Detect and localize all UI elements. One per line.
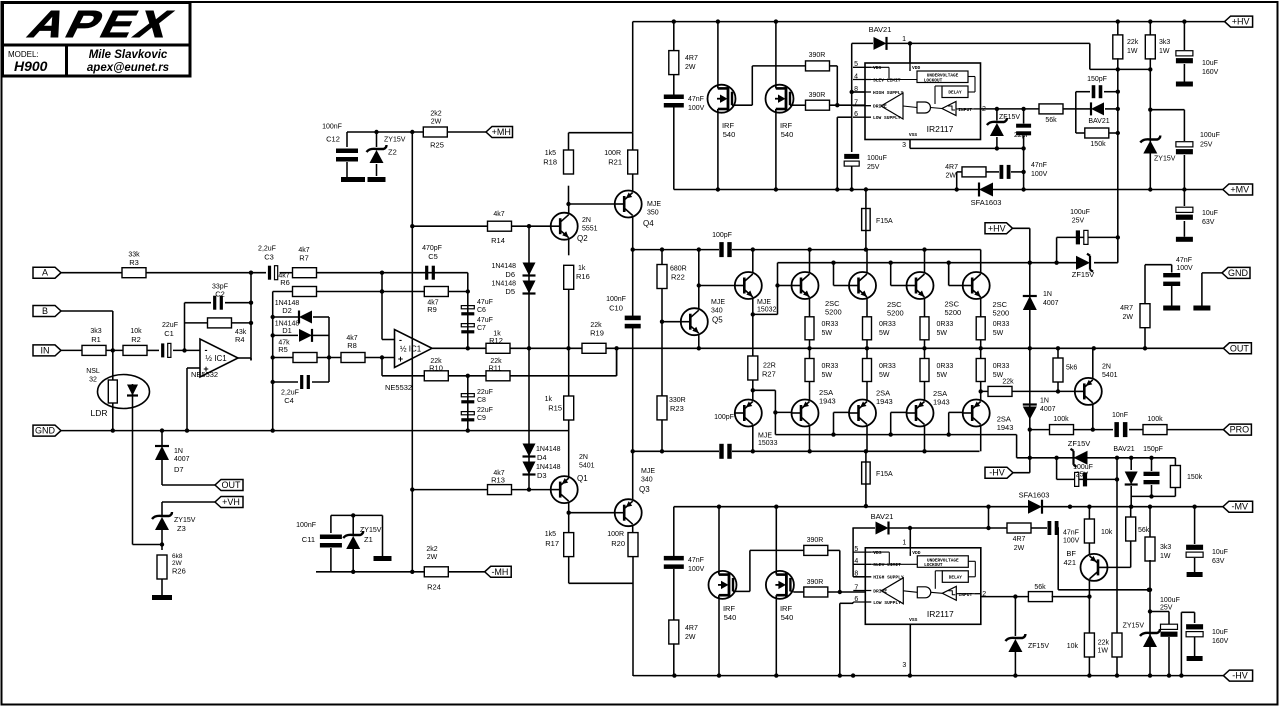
capacitor C8 — [461, 394, 474, 397]
wire 1117 vertical lower — [1116, 458, 1118, 634]
svg-text:C9: C9 — [477, 415, 486, 422]
pin 4 SLEV LIMIT — [853, 563, 871, 565]
svg-text:1k: 1k — [578, 265, 586, 272]
wire C1 to opamp minus — [173, 349, 200, 351]
svg-text:½ IC1: ½ IC1 — [400, 345, 422, 354]
wire R17 R20 bottom line — [569, 582, 633, 584]
zener Z3 — [155, 517, 169, 530]
svg-text:IRF: IRF — [780, 604, 793, 613]
svg-text:15032: 15032 — [757, 307, 777, 314]
svg-text:INPUT: INPUT — [958, 107, 972, 113]
svg-text:47uF: 47uF — [477, 317, 493, 324]
wire 100uF corner down — [1056, 237, 1058, 262]
op-amp IC1a — [200, 339, 238, 377]
svg-text:10uF: 10uF — [1212, 549, 1228, 556]
svg-text:1W: 1W — [1098, 648, 1109, 655]
resistor R7 — [293, 268, 317, 278]
resistor 390R upper2 — [806, 100, 830, 110]
wire Q2 emitter to R16 — [568, 238, 570, 256]
svg-text:22uF: 22uF — [162, 322, 178, 329]
svg-text:+HV: +HV — [1232, 17, 1250, 27]
wire R19 right — [606, 347, 701, 349]
svg-text:5551: 5551 — [582, 226, 598, 233]
svg-text:BAV21: BAV21 — [1113, 446, 1134, 453]
ground of C11 Z1 — [382, 515, 384, 556]
wire Q2 collector up — [568, 204, 570, 215]
resistor 56k lower right — [1126, 517, 1136, 541]
node minus column top — [380, 271, 384, 275]
svg-text:ZY15V: ZY15V — [1154, 156, 1176, 163]
svg-text:150k: 150k — [1090, 141, 1106, 148]
zener ZF15V lower rail — [1074, 451, 1088, 465]
wire opamp2 out — [432, 347, 486, 349]
wire 10uF 63V lower right — [1194, 507, 1196, 544]
svg-text:BAV21: BAV21 — [871, 512, 894, 521]
MOSFET IRF540 #3 — [709, 571, 737, 599]
capacitor 100uF upper IC — [844, 154, 859, 159]
wire -MH rail — [316, 571, 425, 573]
transistor Q5 MJE340 — [681, 308, 708, 335]
svg-text:C8: C8 — [477, 397, 486, 404]
wire GND bus — [61, 430, 569, 432]
transistor Q1 2N5401 — [551, 476, 578, 503]
wire base link — [833, 263, 835, 286]
svg-text:7: 7 — [854, 100, 858, 107]
svg-text:4007: 4007 — [1040, 406, 1056, 413]
svg-text:D3: D3 — [537, 471, 547, 480]
wire 100k2 to PRO tag — [1167, 429, 1223, 431]
wire 2SA collector down — [980, 426, 982, 451]
wire R13 line — [412, 489, 487, 491]
svg-text:Z1: Z1 — [364, 535, 373, 544]
svg-text:6k8: 6k8 — [172, 553, 183, 560]
op-amp IC1b — [395, 330, 433, 368]
wire +HV small tag line — [985, 223, 1013, 234]
svg-text:1N: 1N — [1043, 291, 1052, 298]
svg-text:DELAY: DELAY — [949, 575, 963, 580]
svg-text:32: 32 — [89, 377, 97, 384]
svg-text:5W: 5W — [937, 330, 948, 337]
svg-text:APEX: APEX — [21, 4, 182, 46]
svg-text:340: 340 — [641, 477, 653, 484]
svg-text:22R: 22R — [763, 363, 776, 370]
node minus feedback — [182, 348, 186, 352]
diode D2 — [273, 316, 298, 318]
ground Z2 — [368, 177, 386, 182]
wire R25 to +MH tag — [448, 131, 487, 133]
wire 22k line — [981, 390, 1074, 392]
resistor 0R33 lower #2 — [866, 348, 868, 358]
svg-text:390R: 390R — [809, 52, 826, 59]
capacitor C4 — [300, 375, 303, 389]
wire main line R12 to R19 — [511, 347, 583, 349]
resistor R15 — [564, 396, 574, 420]
resistor R26 — [157, 555, 167, 579]
svg-text:NSL: NSL — [86, 368, 100, 375]
svg-text:VSS: VSS — [909, 617, 918, 623]
svg-text:25V: 25V — [1200, 142, 1213, 149]
svg-text:3: 3 — [902, 662, 906, 669]
svg-text:56k: 56k — [1138, 527, 1150, 534]
wire gate IRF4 — [793, 591, 803, 593]
resistor 150k lower — [1174, 458, 1176, 465]
capacitor C1 — [161, 343, 164, 357]
tag B — [33, 306, 61, 317]
capacitor 47nF output — [1171, 265, 1173, 273]
resistor 22k 1W lower — [1112, 633, 1122, 657]
wire 4R7 snubber upper — [956, 172, 958, 190]
svg-text:C6: C6 — [477, 307, 486, 314]
wire +MH rail — [347, 131, 423, 133]
svg-text:25V: 25V — [1076, 472, 1089, 479]
svg-text:BF: BF — [1066, 549, 1076, 558]
svg-text:R5: R5 — [278, 345, 288, 354]
IC and gate — [917, 102, 931, 113]
IC driver triangle — [881, 93, 903, 119]
svg-text:2N: 2N — [579, 454, 588, 461]
capacitor C7 — [461, 324, 474, 327]
resistor 0R33 upper #2 — [863, 317, 872, 340]
wire 0R33 to 2SA emitter — [809, 382, 811, 400]
svg-text:5401: 5401 — [579, 463, 595, 470]
svg-text:10k: 10k — [1067, 643, 1079, 650]
svg-text:8: 8 — [854, 86, 858, 93]
capacitor C10 — [625, 316, 641, 321]
diode D3 — [523, 462, 536, 475]
wire 2N5401 collector down — [1092, 405, 1094, 430]
svg-text:OUT: OUT — [1230, 343, 1250, 353]
wire R22 leads — [661, 250, 663, 265]
resistor R2 — [123, 345, 147, 355]
resistor 0R33 lower #1 — [809, 348, 811, 358]
wire R6 line — [273, 291, 293, 293]
wire pin2 input lower stub — [980, 594, 982, 597]
transistor MJE15033 — [735, 400, 762, 427]
svg-text:MJE: MJE — [757, 299, 771, 306]
resistor R5 — [293, 353, 317, 363]
svg-text:C11: C11 — [302, 535, 315, 544]
svg-text:C12: C12 — [326, 135, 340, 144]
svg-text:150pF: 150pF — [1143, 446, 1163, 453]
svg-text:ZF15V: ZF15V — [1068, 439, 1091, 448]
wire Q5 collector — [698, 250, 700, 309]
wire R11 right — [511, 375, 617, 377]
svg-text:R21: R21 — [608, 158, 622, 167]
wire 100uF mid line — [1057, 236, 1118, 238]
resistor 150k upper — [1076, 132, 1085, 134]
svg-text:5: 5 — [854, 546, 858, 553]
svg-text:BAV21: BAV21 — [869, 25, 892, 34]
svg-text:5W: 5W — [879, 372, 890, 379]
svg-text:4: 4 — [854, 73, 858, 80]
pin 8 HIGH SUPPLY — [853, 576, 871, 578]
svg-text:Mile Slavkovic: Mile Slavkovic — [89, 49, 168, 61]
pin 2 INPUT — [974, 108, 981, 110]
IC input inverter triangle — [942, 586, 956, 600]
wire R13 to Q1 base — [512, 489, 551, 491]
svg-text:IR2117: IR2117 — [927, 124, 954, 134]
svg-text:4R7: 4R7 — [1120, 305, 1133, 312]
svg-text:1943: 1943 — [876, 397, 893, 406]
wire ZF15V line upper — [1089, 42, 1091, 44]
resistor 390R upper1 — [806, 61, 830, 71]
svg-text:Q1: Q1 — [577, 474, 588, 483]
resistor R24 — [424, 567, 448, 577]
wire PRO line — [1030, 429, 1049, 431]
capacitor 100uF 25V lowermid — [1075, 472, 1079, 486]
wire BAV21 corner to 22k — [1089, 43, 1091, 69]
wire left vertical of diode block — [272, 292, 274, 431]
resistor 390R lower2 — [804, 587, 828, 597]
wire pin2 line lower — [981, 596, 1030, 598]
wire 47nF corner down — [1057, 528, 1059, 590]
resistor R8 — [341, 353, 365, 363]
svg-text:A: A — [42, 268, 48, 278]
wire IN to R1 — [61, 349, 82, 351]
svg-text:NE5532: NE5532 — [191, 370, 218, 379]
IC input inverter triangle — [942, 102, 956, 116]
svg-text:100uF: 100uF — [1070, 209, 1090, 216]
svg-text:½ IC1: ½ IC1 — [205, 354, 227, 363]
svg-text:ZY15V: ZY15V — [384, 137, 406, 144]
svg-text:100uF: 100uF — [867, 155, 887, 162]
wire 0R33 to out line — [980, 340, 982, 349]
wire pin2 input upper — [981, 108, 1041, 110]
fuse F15A upper — [862, 209, 871, 231]
node Q2 collector R18 — [566, 202, 570, 206]
tag +MV — [1223, 184, 1253, 195]
svg-text:BAV21: BAV21 — [1088, 118, 1109, 125]
capacitor 150pF lower — [1151, 458, 1153, 471]
svg-text:2W: 2W — [685, 64, 696, 71]
diode 1N4007 lower — [1029, 348, 1031, 458]
svg-text:+MV: +MV — [1230, 185, 1249, 195]
svg-text:5200: 5200 — [825, 308, 842, 317]
svg-text:ZY15V: ZY15V — [174, 517, 196, 524]
svg-text:D1: D1 — [282, 326, 292, 335]
ground C12 — [341, 177, 365, 182]
wire 2SA base link — [833, 412, 835, 434]
resistor 100k #2 — [1143, 425, 1167, 435]
svg-text:VDD: VDD — [912, 550, 921, 556]
svg-text:100uF: 100uF — [1073, 464, 1093, 471]
transistor Q3 MJE340 — [615, 499, 642, 526]
wire D7 to OUT tag — [161, 460, 163, 485]
svg-text:1: 1 — [902, 36, 906, 43]
diode SFA1603 upper — [979, 183, 993, 197]
resistor R20 — [628, 533, 638, 557]
svg-text:R14: R14 — [491, 236, 505, 245]
svg-text:540: 540 — [723, 130, 736, 139]
zener ZF15V upper rail — [1076, 256, 1090, 270]
transistor 2SA1943 #1 — [792, 400, 819, 427]
tag -MH — [485, 566, 512, 577]
wire B line — [61, 310, 113, 312]
transistor 2SA1943 #4 — [963, 400, 990, 427]
svg-text:56k: 56k — [1045, 117, 1057, 124]
svg-text:-MV: -MV — [1232, 502, 1249, 512]
svg-text:SLEV LIMIT: SLEV LIMIT — [873, 77, 901, 83]
transistor MJE15032 — [735, 272, 762, 299]
svg-text:47nF: 47nF — [1031, 162, 1047, 169]
tag GND — [33, 425, 61, 436]
resistor 0R33 upper #3 — [920, 317, 929, 340]
svg-text:2k2: 2k2 — [430, 111, 441, 118]
wire BAV21 line upper — [852, 42, 873, 44]
node R19 right — [616, 348, 618, 376]
wire R23 leads — [661, 322, 663, 396]
wire top supply line R18 R21 — [569, 132, 633, 134]
title block box — [3, 3, 191, 46]
svg-text:47nF: 47nF — [1063, 530, 1079, 537]
wire BAV21 line lower — [852, 527, 875, 529]
wire 56k right to network — [1063, 108, 1076, 110]
tag -HV right — [1223, 670, 1252, 681]
pin 1 VDD — [909, 528, 911, 556]
svg-text:100V: 100V — [688, 105, 705, 112]
svg-text:H900: H900 — [14, 58, 48, 74]
svg-text:22uF: 22uF — [477, 389, 493, 396]
wire C10 column — [632, 250, 634, 316]
svg-text:ZF15V: ZF15V — [1072, 270, 1095, 279]
svg-text:2W: 2W — [1014, 545, 1025, 552]
svg-text:5200: 5200 — [945, 308, 962, 317]
svg-text:15033: 15033 — [758, 440, 778, 447]
zener ZY15V lower — [1143, 634, 1157, 647]
resistor 22k output — [988, 386, 1012, 396]
resistor R3 — [122, 268, 146, 278]
svg-text:7: 7 — [854, 584, 858, 591]
IC IR2117 box — [865, 548, 981, 625]
svg-text:C5: C5 — [428, 252, 438, 261]
IC undervoltage lockout box — [917, 556, 968, 568]
svg-text:DELAY: DELAY — [948, 91, 962, 96]
svg-text:100k: 100k — [1053, 416, 1069, 423]
svg-text:100R: 100R — [607, 531, 624, 538]
pin 6 LOW SUPPLY — [853, 116, 871, 118]
svg-text:10uF: 10uF — [1202, 60, 1218, 67]
wire emitter to 0R33 — [809, 299, 811, 317]
wire LDR resistor column — [112, 350, 114, 380]
transistor 2SA1943 #3 — [907, 400, 934, 427]
wire +MV source bus — [674, 189, 979, 191]
wire R11 up to out line — [616, 348, 618, 376]
svg-text:R2: R2 — [131, 335, 141, 344]
resistor R18 — [564, 150, 574, 174]
resistor 3k3 1W lower — [1145, 537, 1155, 561]
svg-text:5200: 5200 — [993, 309, 1010, 318]
resistor R13 — [488, 485, 512, 495]
wire MJE15032 emitter — [752, 299, 754, 357]
svg-text:100V: 100V — [1063, 538, 1080, 545]
wire R7 to minus node — [317, 272, 468, 274]
wire pin6 lower to -HV — [840, 602, 853, 604]
tag IN — [33, 345, 61, 356]
svg-text:2W: 2W — [431, 119, 442, 126]
svg-text:+HV: +HV — [988, 223, 1006, 233]
pin 5 VDS — [853, 551, 871, 553]
diode BAV21 lower — [1130, 458, 1132, 470]
wire base feed lower — [753, 389, 776, 391]
transistor BF421 — [1081, 554, 1108, 581]
svg-text:R13: R13 — [491, 476, 505, 485]
svg-text:63V: 63V — [1202, 219, 1215, 226]
svg-text:4k7: 4k7 — [493, 211, 504, 218]
wire R8 to plus — [365, 357, 395, 359]
wire lower snubber line — [988, 507, 990, 528]
MOSFET IRF540 #2 — [766, 85, 794, 113]
wire A to C3 — [146, 272, 266, 274]
svg-text:100k: 100k — [1147, 416, 1163, 423]
svg-text:F15A: F15A — [876, 471, 893, 478]
svg-text:3k3: 3k3 — [1160, 544, 1171, 551]
wire 0R33 to out line — [924, 340, 926, 349]
wire diode chain upper — [528, 226, 530, 348]
wire R10 to R11 — [448, 375, 486, 377]
svg-text:4: 4 — [854, 558, 858, 565]
wire right vertical of diode block — [328, 317, 330, 382]
svg-text:+: + — [398, 354, 403, 364]
svg-text:5200: 5200 — [887, 309, 904, 318]
svg-text:100R: 100R — [604, 150, 621, 157]
capacitor 150pF upper — [1076, 91, 1090, 93]
svg-text:10uF: 10uF — [1212, 629, 1228, 636]
wire pin8 lower up — [853, 576, 865, 578]
svg-text:100pF: 100pF — [712, 232, 732, 239]
svg-text:2W: 2W — [1123, 314, 1134, 321]
wire 47nF to source bus — [673, 107, 675, 190]
svg-text:100uF: 100uF — [1160, 597, 1180, 604]
svg-text:R24: R24 — [427, 583, 441, 592]
svg-text:100nF: 100nF — [606, 296, 626, 303]
wire emitter to 0R33 — [980, 299, 982, 317]
svg-text:R26: R26 — [172, 567, 186, 576]
tag +HV right — [1225, 16, 1253, 27]
resistor 3k3 1W — [1149, 22, 1151, 36]
LDR photodiode — [127, 385, 138, 396]
wire 2SA base link — [948, 412, 950, 434]
svg-text:4R7: 4R7 — [685, 55, 698, 62]
svg-text:0R33: 0R33 — [993, 321, 1010, 328]
resistor R9 — [424, 287, 448, 297]
pin 1 VDD — [909, 43, 911, 71]
transistor 2SC5200 #3 — [907, 272, 934, 299]
svg-text:10uF: 10uF — [1202, 210, 1218, 217]
pin 5 VDS — [853, 66, 871, 68]
transistor Q4 MJE350 — [615, 191, 642, 218]
IC undervoltage lockout box — [917, 71, 968, 83]
resistor 5k6 — [1057, 348, 1059, 357]
wire supply vertical 412 — [411, 132, 413, 572]
svg-text:-HV: -HV — [989, 468, 1005, 478]
diode D5 — [523, 281, 536, 294]
svg-text:1943: 1943 — [933, 398, 950, 407]
svg-text:IRF: IRF — [723, 604, 736, 613]
wire 2SC base rail — [778, 262, 1077, 264]
svg-text:56k: 56k — [1034, 584, 1046, 591]
svg-text:SFA1603: SFA1603 — [1019, 491, 1050, 500]
wire gate IRF3 — [736, 590, 750, 592]
svg-text:25V: 25V — [1072, 218, 1085, 225]
pin 7 DRIVE — [853, 590, 871, 592]
resistor R23 — [657, 396, 667, 420]
svg-text:R9: R9 — [427, 305, 437, 314]
diode 1N4007 upper — [1029, 263, 1031, 349]
svg-text:0R33: 0R33 — [822, 363, 839, 370]
APEX logo — [21, 4, 182, 46]
wire R26 to ground — [161, 579, 163, 595]
svg-text:1943: 1943 — [819, 397, 836, 406]
